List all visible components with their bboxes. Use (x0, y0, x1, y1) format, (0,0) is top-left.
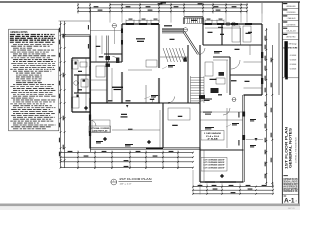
window dim tick clusters above top wall (126, 20, 224, 24)
upper right wing top wall B (203, 22, 262, 24)
hall bottom wall (160, 101, 200, 103)
tag leader line (113, 28, 115, 44)
hall detail lines (90, 45, 262, 182)
plan title circle marker (111, 179, 117, 185)
garage bottom wall (200, 180, 244, 182)
left wall jamb marks (121, 29, 123, 34)
kitchen cabinet lines (205, 60, 228, 93)
left dimension texts (59, 28, 64, 157)
right exterior wall upper (260, 24, 262, 95)
great room top wall (122, 22, 159, 24)
svg-text:MERIDIAN HOMES: MERIDIAN HOMES (287, 5, 297, 8)
room labels (78, 20, 252, 126)
patio slider dark segment (146, 147, 163, 149)
bottom scan shadow band (0, 204, 300, 207)
staircase treads (191, 76, 205, 103)
upper right wing left jog (182, 17, 184, 24)
deck band upper middle (162, 28, 184, 33)
misc leader notes (96, 51, 256, 147)
svg-text:J. WALLACE: J. WALLACE (287, 17, 297, 20)
door swing arcs (90, 48, 240, 126)
garage left wall (198, 148, 200, 182)
svg-text:STE design: STE design (289, 44, 297, 46)
nook divider wall (161, 103, 163, 148)
left dimension lines (61, 8, 91, 168)
arrow line (246, 139, 263, 141)
bed2 dim line (205, 27, 240, 29)
svg-text:AS NOTED: AS NOTED (287, 36, 297, 39)
circle tag D (232, 98, 236, 102)
master suite wall (90, 60, 122, 62)
great room lower label (112, 87, 123, 88)
svg-text:A-1: A-1 (284, 197, 295, 204)
svg-text:1410 RIVER RD: 1410 RIVER RD (287, 24, 297, 26)
right sheet border (298, 2, 299, 204)
down arrow symbol (255, 138, 258, 141)
lot coverage table box (201, 158, 227, 172)
bottom-left dim extension lines (78, 151, 178, 170)
entry wall vertical (106, 36, 108, 63)
right dimension lines (266, 23, 279, 186)
stair hatch diagonals (163, 48, 187, 62)
svg-text:SHEET 1 OF 4: SHEET 1 OF 4 (288, 208, 295, 210)
great room right wall (157, 24, 159, 68)
bottom-right dim texts (198, 185, 267, 193)
garage bay divider (226, 108, 228, 148)
notes text lines (10, 34, 56, 129)
left wing top wall (72, 56, 90, 58)
master door arrow (126, 105, 128, 108)
interior walls (74, 24, 262, 151)
porch top wall (62, 34, 90, 36)
bed2 left wall (201, 24, 203, 45)
svg-text:LOT COVERAGE 2450 SF: LOT COVERAGE 2450 SF (204, 158, 226, 161)
utility walls cluster (104, 52, 122, 54)
master label box (89, 126, 111, 133)
master bedroom top wall (90, 101, 160, 103)
svg-text:GENERAL NOTES: GENERAL NOTES (10, 31, 27, 34)
bottom-left dim texts (68, 151, 174, 167)
stair landing post (184, 58, 187, 62)
fireplace fill blocks (106, 56, 111, 60)
bkfst wall (230, 73, 262, 75)
garage interior dim text blobs (238, 112, 239, 146)
garage label box (201, 131, 224, 141)
left wing bottom wall (72, 110, 90, 112)
diamond symbol 2 (103, 137, 107, 141)
right exterior wall lower (242, 95, 244, 182)
kitchen counter wall (213, 55, 230, 57)
top dimension lines (78, 5, 247, 12)
top dimension extension lines (78, 3, 262, 14)
garage left wall mid segment (198, 103, 200, 148)
small dash above stamp (283, 174, 288, 177)
title block row values (287, 5, 297, 39)
left exterior wall (88, 36, 90, 149)
bottom-left dimension lines (61, 153, 193, 168)
great room right nib wall (145, 85, 147, 103)
top dimension tick marks (77, 4, 248, 12)
door tag circle C (226, 22, 230, 26)
left dim top connector (59, 20, 91, 22)
svg-text:ARCHITECTURE: ARCHITECTURE (283, 46, 297, 49)
hall wall x107 (105, 62, 107, 103)
bottom-right dim ticks (192, 186, 274, 195)
deck band upper right (186, 18, 203, 24)
filled window blocks right wall (242, 112, 245, 117)
title block row dividers (282, 8, 298, 194)
long extension lines down to walls (90, 14, 262, 23)
misc interior detail lines (90, 26, 251, 148)
door tag circle B (183, 28, 187, 32)
diamond symbol 3 (220, 174, 224, 178)
closet wall 1 (220, 24, 222, 45)
upper middle band wall (162, 29, 184, 31)
title block row labels (283, 3, 287, 35)
range dark rect (219, 72, 225, 76)
svg-text:GENERAL NOTES: GENERAL NOTES (288, 127, 292, 168)
svg-text:4" SLAB: 4" SLAB (208, 137, 219, 140)
diamond symbol 1 (84, 106, 88, 110)
slope label blobs (203, 112, 212, 115)
hall top wall (203, 43, 262, 45)
sheet number label (284, 195, 287, 198)
window header dark segments top wall (126, 23, 252, 25)
master window blocks (89, 115, 91, 121)
great room corner arc (152, 95, 160, 103)
right wall window blocks (261, 52, 263, 58)
right wing jog wall (244, 93, 263, 95)
right dimension texts (265, 36, 272, 179)
leader lines (144, 67, 231, 128)
top sheet border (0, 1, 300, 2)
great room lower walls (90, 62, 160, 104)
designer bullet lines (289, 54, 296, 70)
garage interior wall (200, 148, 244, 150)
svg-text:LOT COVERAGE 2450 SF: LOT COVERAGE 2450 SF (204, 164, 226, 167)
svg-text:CUSTOM RESIDENCE: CUSTOM RESIDENCE (287, 12, 296, 14)
svg-text:PERMISSION OF STE: PERMISSION OF STE (283, 190, 297, 193)
right dimension ticks (265, 29, 273, 184)
door tag circle D2 (232, 22, 236, 26)
upper right jog vertical (201, 17, 203, 24)
door tag circle A (112, 22, 235, 32)
svg-text:LANAI PER PLAN: LANAI PER PLAN (92, 129, 108, 132)
bottom wall left section (90, 147, 200, 149)
kitchen left wall (198, 45, 200, 103)
pantry dark cluster (211, 88, 219, 93)
left wing dark marks (75, 62, 77, 65)
designer logo black bar (284, 41, 287, 77)
small black square marker (285, 77, 288, 80)
great room left wall (120, 24, 122, 62)
svg-text:LOWELL RESIDENCE: LOWELL RESIDENCE (295, 136, 297, 163)
closet wall 2 (240, 28, 242, 45)
diamond symbol 2b (147, 140, 151, 144)
left wing inner wall (85, 58, 87, 112)
svg-text:3 CAR GARAGE: 3 CAR GARAGE (204, 132, 222, 135)
stair top rail (160, 56, 188, 58)
svg-text:LOT COVERAGE 2450 SF: LOT COVERAGE 2450 SF (204, 166, 226, 169)
general notes box (9, 29, 59, 131)
svg-text:LOT COVERAGE 2450 SF: LOT COVERAGE 2450 SF (204, 161, 226, 164)
title block left border (281, 2, 284, 204)
bottom-left dim ticks (60, 152, 194, 169)
bed2 label blob (231, 80, 237, 81)
hall wall vertical center (186, 45, 188, 103)
stamp text block (283, 178, 297, 193)
left wing outer wall (70, 58, 72, 112)
svg-text:1/4" = 1'-0": 1/4" = 1'-0" (120, 184, 132, 186)
svg-text:1ST FLOOR PLAN: 1ST FLOOR PLAN (119, 177, 152, 181)
top dimension texts (94, 3, 237, 11)
bottom-right dimension lines (193, 187, 273, 194)
svg-text:03-22-04: 03-22-04 (287, 30, 296, 32)
left dimension ticks (60, 23, 66, 161)
bottom-right extension stubs (193, 170, 273, 195)
kitchen corner appliance (199, 95, 205, 99)
upper right wing top wall A (184, 16, 203, 18)
window glazing lines top wall (90, 24, 252, 132)
diagonal wall (183, 32, 198, 55)
exterior walls (62, 17, 263, 183)
kitchen right wall (228, 57, 230, 95)
bath fixtures left wing (72, 60, 88, 108)
interior dim line master (112, 129, 160, 131)
